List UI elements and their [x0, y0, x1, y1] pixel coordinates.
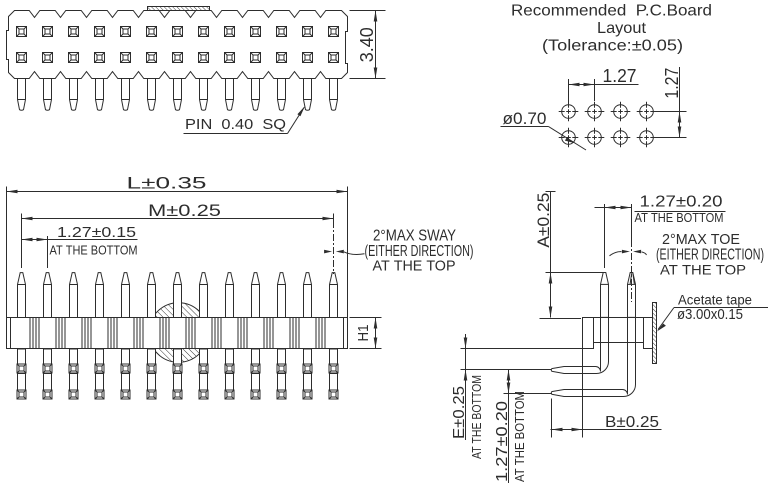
svg-text:A±0.25: A±0.25	[534, 193, 553, 248]
svg-text:AT THE BOTTOM: AT THE BOTTOM	[50, 244, 138, 258]
svg-text:1.27: 1.27	[662, 68, 682, 99]
top view pin contacts row 1	[17, 27, 339, 37]
side view bent leg B (back row)	[551, 349, 635, 397]
side view upper pin A (front row)	[601, 273, 609, 318]
svg-text:ø3.00x0.15: ø3.00x0.15	[677, 306, 743, 323]
svg-text:AT THE TOP: AT THE TOP	[373, 259, 456, 275]
side view pin B centerline and tilt ghost	[630, 204, 634, 302]
front view body bottom edge redraw	[7, 348, 348, 350]
svg-text:2°MAX SWAY: 2°MAX SWAY	[373, 228, 456, 245]
svg-text:(Tolerance:±0.05): (Tolerance:±0.05)	[542, 38, 683, 55]
side view body	[583, 318, 653, 349]
svg-text:B±0.25: B±0.25	[605, 414, 659, 431]
dimension 1.27±0.15 AT THE BOTTOM	[22, 224, 138, 268]
acetate tape dot (hatched circle)	[149, 303, 209, 363]
PCB layout holes 2 rows x 4 cols	[559, 102, 657, 148]
acetate tape strip (top view, hatched)	[148, 7, 210, 11]
title: Recommended P.C.Board Layout (Tolerance:±0.05)	[511, 3, 712, 55]
svg-text:1.27: 1.27	[603, 66, 637, 86]
svg-text:L±0.35: L±0.35	[127, 174, 207, 193]
svg-text:Layout: Layout	[597, 20, 647, 37]
svg-text:H1: H1	[355, 325, 372, 342]
front view body	[7, 318, 348, 349]
svg-text:3.40: 3.40	[357, 27, 377, 62]
svg-text:(EITHER DIRECTION): (EITHER DIRECTION)	[365, 243, 474, 260]
svg-text:1.27±0.15: 1.27±0.15	[57, 224, 136, 241]
svg-text:1.27±0.20: 1.27±0.20	[494, 401, 511, 482]
label 2°MAX SWAY (EITHER DIRECTION) AT THE TOP with arrows	[324, 214, 473, 275]
svg-text:AT THE BOTTOM: AT THE BOTTOM	[470, 375, 484, 459]
dimension 1.27±0.20 AT THE BOTTOM (top of side view)	[595, 194, 726, 269]
dimension L±0.35	[7, 174, 348, 318]
svg-text:AT THE TOP: AT THE TOP	[660, 262, 746, 278]
label 2°MAX TOE (EITHER DIRECTION) AT THE TOP with arrows	[610, 231, 765, 278]
side view upper pin B (back row)	[628, 273, 636, 318]
svg-text:1.27±0.20: 1.27±0.20	[640, 194, 723, 211]
dimension 1.27±0.20 AT THE BOTTOM (bent legs)	[494, 370, 552, 484]
dimension 1.27 horizontal (pcb)	[569, 66, 639, 103]
front view upper pins	[18, 273, 338, 318]
top view body outline with castellated notches	[7, 11, 348, 79]
side view bent leg A (front row)	[551, 349, 608, 374]
svg-text:E±0.25: E±0.25	[451, 386, 468, 439]
top view bottom pins	[18, 79, 338, 111]
dimension 3.40	[350, 11, 386, 79]
side view acetate tape (hatched strip)	[653, 303, 657, 364]
dimension M±0.25	[22, 201, 334, 236]
label Ø0.70 with leader through hole	[501, 109, 587, 150]
front view lower pins	[17, 349, 338, 400]
svg-text:M±0.25: M±0.25	[148, 201, 221, 220]
pin 13 centerline (sway)	[333, 214, 335, 222]
dimension E±0.25 AT THE BOTTOM	[451, 334, 583, 459]
dimension A±0.25	[534, 192, 603, 319]
svg-text:AT THE BOTTOM: AT THE BOTTOM	[513, 391, 527, 482]
dimension 1.27 vertical (pcb)	[656, 67, 687, 138]
svg-text:PIN 0.40 SQ: PIN 0.40 SQ	[185, 117, 286, 133]
label Acetate tape Ø3.00x0.15 with leader arrow	[657, 293, 768, 332]
label PIN 0.40 SQ with leader arrow	[184, 106, 306, 134]
top view pin contacts row 2	[17, 53, 339, 63]
dimension H1	[350, 318, 382, 349]
svg-text:Recommended P.C.Board: Recommended P.C.Board	[511, 3, 712, 20]
svg-text:2°MAX TOE: 2°MAX TOE	[662, 231, 740, 248]
svg-text:ø0.70: ø0.70	[503, 109, 547, 128]
dimension B±0.25	[551, 349, 662, 438]
svg-text:AT THE BOTTOM: AT THE BOTTOM	[635, 211, 724, 225]
